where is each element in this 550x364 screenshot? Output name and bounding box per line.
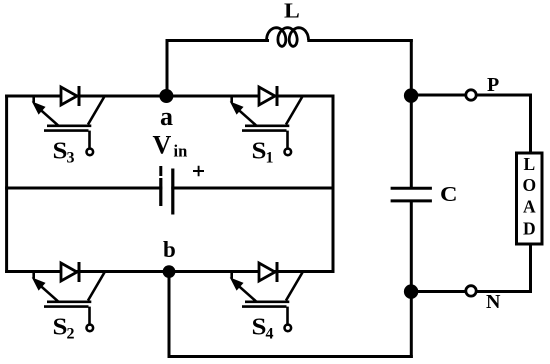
svg-text:a: a bbox=[160, 102, 173, 131]
svg-text:4: 4 bbox=[266, 326, 274, 343]
svg-text:S: S bbox=[252, 315, 267, 341]
svg-text:1: 1 bbox=[266, 150, 274, 167]
svg-text:A: A bbox=[523, 196, 536, 216]
svg-text:2: 2 bbox=[67, 326, 75, 343]
svg-text:b: b bbox=[163, 237, 176, 262]
svg-text:in: in bbox=[174, 142, 188, 161]
svg-text:P: P bbox=[487, 74, 499, 96]
svg-text:D: D bbox=[523, 218, 536, 238]
svg-text:3: 3 bbox=[67, 150, 75, 167]
svg-text:C: C bbox=[440, 182, 458, 206]
svg-text:O: O bbox=[522, 175, 536, 195]
svg-text:N: N bbox=[486, 291, 501, 313]
svg-text:S: S bbox=[53, 315, 68, 341]
svg-text:L: L bbox=[284, 0, 300, 23]
svg-text:S: S bbox=[252, 139, 267, 165]
svg-text:V: V bbox=[153, 131, 172, 160]
svg-text:S: S bbox=[53, 139, 68, 165]
svg-text:L: L bbox=[523, 154, 535, 174]
